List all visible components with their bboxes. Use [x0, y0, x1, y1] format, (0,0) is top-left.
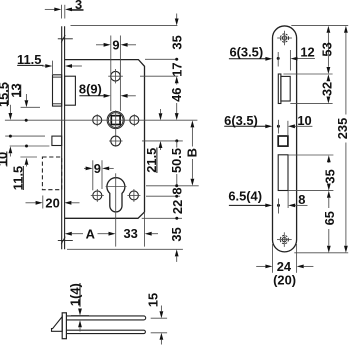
dimension 9 top hole	[96, 36, 136, 112]
svg-text:33: 33	[124, 226, 138, 241]
dimension 3 plate thickness	[45, 0, 84, 19]
cylinder centerlines	[106, 173, 127, 246]
svg-text:53: 53	[319, 42, 334, 56]
extension line case right edge down	[144, 212, 146, 247]
svg-text:10: 10	[297, 113, 311, 128]
screw hole 1 on plate	[277, 52, 280, 67]
dimension B	[185, 120, 200, 185]
extension line deadbolt front	[42, 196, 44, 209]
latch bolt tail inside case	[65, 76, 76, 105]
svg-text:A: A	[86, 226, 95, 241]
dimension 15.5 left	[0, 82, 12, 138]
latch bevel wedge side view	[52, 317, 63, 332]
dimension 6(3.5) lower	[224, 113, 272, 128]
latch bolt head	[53, 75, 62, 106]
dimension 9 cylinder hole	[84, 160, 114, 190]
dead bolt extended, dashed	[42, 157, 61, 190]
svg-text:50.5: 50.5	[169, 148, 184, 173]
svg-text:20: 20	[45, 195, 59, 210]
svg-text:9: 9	[112, 37, 119, 52]
dimension 8(9) follower square	[79, 82, 136, 98]
lock case outline	[65, 60, 145, 219]
dimension 15 bottom view	[145, 293, 167, 345]
follower vertical centerline	[115, 110, 117, 146]
latch opening with bent lip	[278, 74, 290, 104]
break mark top of faceplate	[58, 35, 73, 43]
extension line cylinder axis right	[146, 185, 199, 187]
follower hub circles	[107, 112, 124, 129]
svg-text:6(3.5): 6(3.5)	[224, 113, 258, 128]
extension line case bottom right	[142, 217, 182, 219]
dimension 10 left	[0, 146, 12, 166]
dimension 13 left	[8, 83, 28, 121]
ext plate sides down	[273, 244, 297, 273]
svg-text:10: 10	[0, 152, 10, 166]
svg-text:65: 65	[322, 211, 337, 225]
svg-text:22: 22	[170, 200, 185, 214]
fixing hole right of cylinder	[127, 189, 140, 202]
svg-text:32: 32	[319, 82, 334, 96]
ext deadbolt opening top	[288, 154, 333, 156]
extension line case top right	[145, 58, 178, 60]
svg-text:6(3.5): 6(3.5)	[229, 44, 263, 59]
extension line plate bottom right	[67, 248, 183, 250]
dimension 8 right view	[288, 192, 307, 207]
faceplate side view bar	[62, 313, 66, 339]
top countersunk screw hole	[277, 31, 292, 46]
screw hole 3 on plate	[277, 199, 280, 214]
dimension 33	[124, 226, 158, 241]
svg-text:B: B	[185, 148, 200, 157]
svg-text:35: 35	[169, 227, 184, 241]
svg-text:(20): (20)	[273, 273, 296, 288]
svg-text:9: 9	[94, 161, 101, 176]
dimension 35 bottom right of case	[169, 227, 184, 262]
follower square spindle hole	[111, 116, 120, 125]
svg-text:35: 35	[169, 35, 184, 49]
dimension 1(4)	[67, 283, 89, 332]
dimension 11.5 lower left	[10, 145, 28, 191]
extension line deadbolt top left	[20, 156, 37, 158]
dimension 11.5 top	[17, 52, 82, 74]
dimension 6(3.5) upper	[229, 44, 273, 60]
upper rail side view	[66, 316, 145, 320]
fixing hole left of cylinder	[91, 189, 104, 202]
dimension 10 right view	[288, 113, 313, 128]
auxiliary bolt	[52, 136, 62, 145]
svg-text:8: 8	[170, 187, 185, 194]
fixing hole right of follower	[130, 114, 139, 126]
svg-text:15: 15	[145, 293, 160, 307]
dimension 8 right of case	[170, 187, 185, 197]
hole below follower	[109, 136, 123, 146]
extension line cylinder-holes axis right	[146, 195, 180, 197]
extension line hole-below bottom left	[10, 145, 50, 147]
profile cylinder hole	[107, 178, 125, 212]
svg-text:11.5: 11.5	[17, 52, 41, 67]
square cutout	[278, 136, 288, 146]
svg-text:35: 35	[322, 169, 337, 183]
svg-text:235: 235	[335, 118, 350, 140]
bottom countersunk screw hole	[277, 232, 292, 247]
dimension 65	[322, 191, 337, 253]
svg-text:8(9): 8(9)	[79, 82, 102, 97]
extension line top hole axis	[140, 75, 178, 77]
dimension 53	[319, 26, 334, 74]
dimension 24 (20)	[256, 259, 313, 287]
ext plate top right	[291, 25, 348, 27]
screw hole 2 on plate	[277, 120, 280, 134]
svg-text:6.5(4): 6.5(4)	[228, 188, 262, 203]
dimension chain 35/17/46 right of case	[169, 14, 184, 121]
svg-text:46: 46	[169, 88, 184, 102]
dimension 35 right view	[322, 155, 337, 190]
dimension 50.5	[169, 139, 184, 187]
horizontal centerline through follower	[5, 119, 198, 121]
dimension 20	[26, 195, 80, 210]
faceplate of lock, edge view	[62, 26, 65, 249]
extension line latch bottom	[21, 106, 40, 108]
ext deadbolt opening bottom	[288, 190, 333, 192]
svg-text:8: 8	[298, 192, 305, 207]
dimension 32	[319, 74, 334, 103]
dimension 21.5	[144, 109, 162, 173]
ext square right edge up	[287, 121, 289, 136]
face plate outline, rounded ends	[273, 26, 297, 252]
extension line plate top	[71, 25, 178, 27]
ext plate bottom right	[294, 252, 348, 254]
ext latch opening bottom	[290, 103, 332, 105]
ext latch opening top	[283, 73, 332, 75]
extension line hole-below top left	[5, 135, 45, 137]
dead bolt opening	[278, 155, 288, 191]
dimension 235	[335, 26, 350, 253]
ext slot right edge up	[289, 50, 291, 71]
extension line hole-below axis right	[142, 140, 183, 142]
dimension A	[65, 226, 116, 241]
dimension 22 right of case	[170, 200, 185, 220]
lower rail side view	[66, 330, 145, 333]
break mark bottom of faceplate	[58, 237, 73, 245]
ext deadbolt right edge down	[287, 191, 289, 208]
svg-text:12: 12	[300, 44, 314, 59]
dimension 12	[291, 44, 315, 60]
fixing hole left of follower	[93, 114, 102, 126]
dimension 6.5(4)	[228, 188, 272, 207]
svg-text:17: 17	[169, 62, 184, 76]
top fixing hole 8(9)	[108, 69, 123, 83]
